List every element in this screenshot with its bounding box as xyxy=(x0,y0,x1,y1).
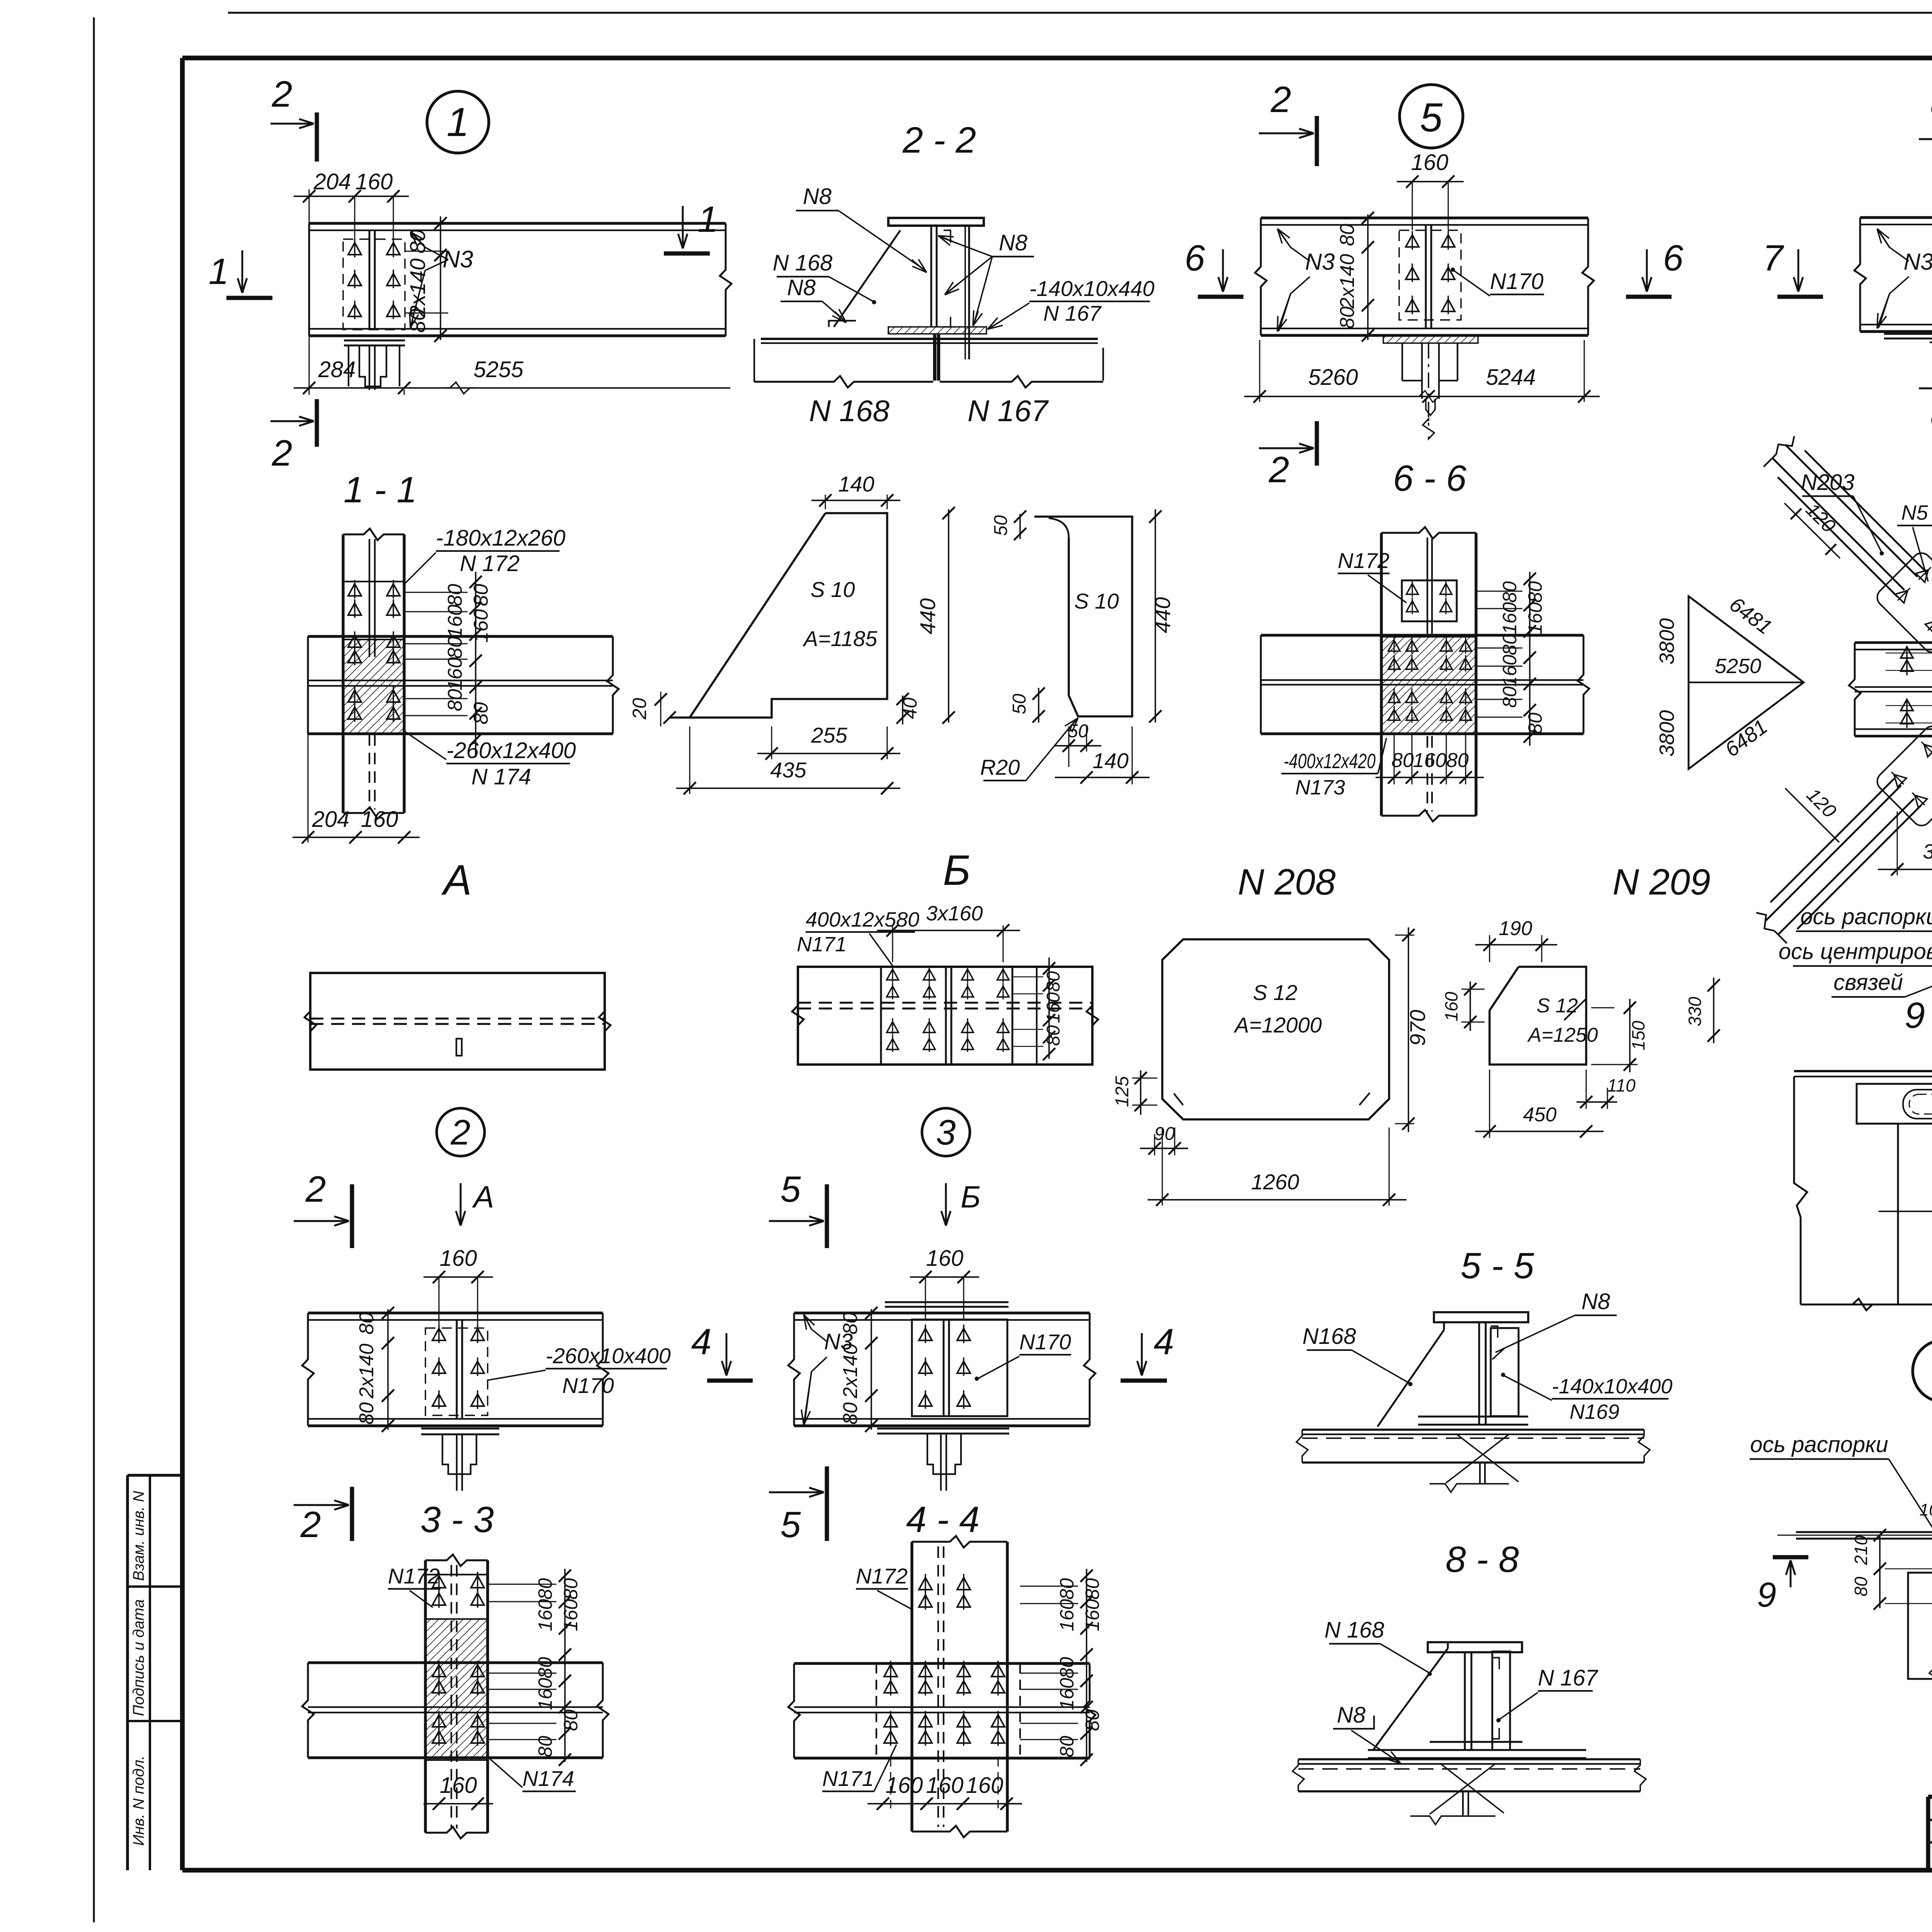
svg-text:R20: R20 xyxy=(980,755,1020,779)
svg-text:120: 120 xyxy=(1802,499,1840,537)
svg-text:N 167: N 167 xyxy=(968,394,1049,428)
svg-text:2: 2 xyxy=(1270,79,1291,120)
svg-text:160: 160 xyxy=(1413,749,1447,772)
svg-text:160: 160 xyxy=(534,1599,556,1631)
svg-text:160: 160 xyxy=(1441,992,1461,1021)
svg-text:6: 6 xyxy=(1185,238,1205,279)
svg-text:N3: N3 xyxy=(1305,249,1335,275)
svg-text:N170: N170 xyxy=(1490,269,1544,294)
svg-text:140: 140 xyxy=(838,472,874,496)
svg-text:N8: N8 xyxy=(1337,1702,1366,1728)
svg-text:N171: N171 xyxy=(822,1766,874,1791)
svg-text:210: 210 xyxy=(1851,1535,1871,1565)
svg-text:5: 5 xyxy=(781,1169,801,1210)
svg-text:N172: N172 xyxy=(1338,548,1389,573)
svg-text:4: 4 xyxy=(1154,1321,1174,1362)
svg-text:80: 80 xyxy=(444,636,466,659)
svg-text:80: 80 xyxy=(355,1312,378,1335)
svg-text:-140x10x440: -140x10x440 xyxy=(1029,276,1155,301)
svg-text:440: 440 xyxy=(1150,597,1175,633)
svg-text:80: 80 xyxy=(534,1736,556,1757)
svg-text:2 - 2: 2 - 2 xyxy=(902,120,976,161)
svg-text:80: 80 xyxy=(560,1578,582,1600)
svg-text:80: 80 xyxy=(1056,1657,1078,1679)
svg-text:160: 160 xyxy=(1043,992,1064,1023)
svg-text:160: 160 xyxy=(1524,602,1546,634)
svg-text:N172: N172 xyxy=(856,1564,908,1588)
svg-text:80: 80 xyxy=(534,1578,556,1600)
svg-text:N170: N170 xyxy=(562,1373,614,1398)
svg-text:N169: N169 xyxy=(1570,1400,1619,1423)
svg-text:2x140: 2x140 xyxy=(355,1344,378,1399)
svg-text:S 12: S 12 xyxy=(1253,980,1297,1005)
svg-text:80: 80 xyxy=(1851,1577,1871,1597)
svg-text:80: 80 xyxy=(1391,749,1414,772)
svg-text:80: 80 xyxy=(839,1402,862,1425)
svg-text:1: 1 xyxy=(209,251,229,292)
svg-text:160: 160 xyxy=(355,169,393,194)
svg-text:А: А xyxy=(441,856,471,904)
svg-text:9: 9 xyxy=(1757,1576,1776,1614)
svg-text:3800: 3800 xyxy=(1655,710,1679,757)
svg-text:160: 160 xyxy=(1499,655,1520,687)
svg-text:N170: N170 xyxy=(1019,1330,1071,1354)
svg-text:1: 1 xyxy=(447,100,469,145)
svg-text:80: 80 xyxy=(1043,971,1064,992)
svg-text:150: 150 xyxy=(1628,1020,1648,1050)
svg-text:4 - 4: 4 - 4 xyxy=(906,1499,980,1540)
svg-text:-260x12x400: -260x12x400 xyxy=(446,738,576,763)
svg-text:Б: Б xyxy=(943,847,971,894)
svg-text:N171: N171 xyxy=(797,933,847,956)
svg-text:255: 255 xyxy=(811,723,847,747)
svg-text:160: 160 xyxy=(470,609,492,643)
svg-text:-400x12x420: -400x12x420 xyxy=(1284,750,1376,773)
svg-text:2: 2 xyxy=(272,74,293,115)
svg-text:S 10: S 10 xyxy=(1074,589,1119,613)
svg-text:50: 50 xyxy=(991,515,1011,536)
svg-text:80: 80 xyxy=(470,702,492,724)
svg-text:1260: 1260 xyxy=(1251,1170,1299,1194)
svg-text:140: 140 xyxy=(1092,748,1128,773)
svg-text:80: 80 xyxy=(405,230,430,253)
svg-text:160: 160 xyxy=(926,1246,964,1271)
svg-text:80: 80 xyxy=(1056,1578,1078,1600)
svg-text:120: 120 xyxy=(1803,784,1841,822)
svg-text:1: 1 xyxy=(698,199,718,240)
svg-text:160: 160 xyxy=(1082,1599,1103,1631)
svg-text:5244: 5244 xyxy=(1486,365,1536,390)
svg-text:970: 970 xyxy=(1405,1010,1430,1046)
svg-text:80: 80 xyxy=(1499,634,1520,655)
svg-text:80: 80 xyxy=(355,1402,378,1425)
svg-text:80: 80 xyxy=(1056,1736,1078,1757)
svg-text:ось распорки: ось распорки xyxy=(1800,904,1932,929)
svg-text:125: 125 xyxy=(1112,1076,1133,1107)
svg-text:8: 8 xyxy=(1930,394,1932,435)
svg-text:160: 160 xyxy=(1056,1678,1078,1710)
svg-text:5: 5 xyxy=(1420,95,1443,140)
svg-text:ось распорки: ось распорки xyxy=(1750,1432,1888,1457)
svg-text:N 168: N 168 xyxy=(809,394,889,428)
svg-text:N174: N174 xyxy=(522,1766,574,1791)
svg-text:80: 80 xyxy=(1336,224,1359,246)
svg-text:160: 160 xyxy=(1411,150,1449,175)
svg-text:4: 4 xyxy=(691,1321,712,1362)
svg-text:80: 80 xyxy=(560,1709,582,1731)
svg-text:160: 160 xyxy=(534,1678,556,1710)
svg-text:3 - 3: 3 - 3 xyxy=(420,1499,494,1540)
svg-text:20: 20 xyxy=(629,698,650,720)
svg-text:160: 160 xyxy=(1499,602,1520,634)
svg-text:80: 80 xyxy=(1446,749,1469,772)
svg-text:Подпись и дата: Подпись и дата xyxy=(130,1599,147,1716)
svg-text:435: 435 xyxy=(770,758,806,782)
svg-text:-260x10x400: -260x10x400 xyxy=(546,1344,671,1368)
svg-text:80: 80 xyxy=(1082,1709,1103,1731)
svg-text:2: 2 xyxy=(272,433,293,474)
svg-text:7: 7 xyxy=(1763,238,1784,279)
svg-text:N 167: N 167 xyxy=(1043,301,1102,325)
svg-text:N8: N8 xyxy=(803,184,832,209)
svg-text:-180x12x260: -180x12x260 xyxy=(436,526,565,551)
svg-text:5250: 5250 xyxy=(1715,655,1761,678)
svg-text:3: 3 xyxy=(936,1113,956,1152)
svg-text:80: 80 xyxy=(444,584,466,606)
svg-text:40: 40 xyxy=(899,697,921,719)
svg-text:6 - 6: 6 - 6 xyxy=(1393,458,1466,499)
svg-text:5255: 5255 xyxy=(473,357,524,382)
svg-text:110: 110 xyxy=(1607,1075,1636,1095)
svg-text:80: 80 xyxy=(470,584,492,606)
svg-text:3x160: 3x160 xyxy=(926,902,983,925)
svg-text:160: 160 xyxy=(444,605,466,638)
svg-text:A=1185: A=1185 xyxy=(803,626,878,651)
svg-text:160: 160 xyxy=(560,1599,582,1631)
svg-text:N172: N172 xyxy=(388,1564,440,1588)
svg-text:5260: 5260 xyxy=(1308,365,1358,390)
svg-text:3x160: 3x160 xyxy=(1923,840,1932,863)
svg-text:N8: N8 xyxy=(1582,1289,1610,1314)
svg-text:N3: N3 xyxy=(1904,249,1932,275)
svg-text:N8: N8 xyxy=(999,230,1027,255)
svg-text:160: 160 xyxy=(926,1773,964,1798)
svg-text:Инв. N подл.: Инв. N подл. xyxy=(130,1755,147,1846)
svg-text:3800: 3800 xyxy=(1655,618,1679,665)
svg-text:N 167: N 167 xyxy=(1538,1665,1599,1690)
svg-text:80: 80 xyxy=(1499,686,1520,708)
svg-text:2: 2 xyxy=(1269,449,1289,490)
svg-text:2: 2 xyxy=(300,1504,321,1545)
svg-text:160: 160 xyxy=(440,1246,477,1271)
svg-text:50: 50 xyxy=(1009,694,1030,714)
svg-text:80: 80 xyxy=(1499,581,1520,603)
svg-text:80: 80 xyxy=(1336,306,1359,329)
svg-text:S 10: S 10 xyxy=(810,577,855,602)
svg-text:Б: Б xyxy=(961,1180,981,1214)
svg-text:N 208: N 208 xyxy=(1238,862,1336,903)
svg-text:160: 160 xyxy=(361,807,398,832)
svg-text:80: 80 xyxy=(1082,1578,1103,1600)
svg-text:-140x10x400: -140x10x400 xyxy=(1552,1375,1672,1398)
svg-text:6481: 6481 xyxy=(1721,715,1772,762)
svg-text:N 168: N 168 xyxy=(1325,1617,1384,1643)
svg-text:8: 8 xyxy=(1930,83,1932,124)
svg-text:S 12: S 12 xyxy=(1537,995,1578,1017)
svg-text:N168: N168 xyxy=(1303,1324,1356,1349)
svg-text:N203: N203 xyxy=(1801,470,1855,495)
svg-text:90: 90 xyxy=(1154,1124,1175,1144)
svg-text:2: 2 xyxy=(305,1169,326,1210)
svg-text:8 - 8: 8 - 8 xyxy=(1446,1539,1519,1580)
svg-text:1 - 1: 1 - 1 xyxy=(344,469,417,510)
svg-text:N8: N8 xyxy=(787,275,816,300)
svg-text:50: 50 xyxy=(1068,721,1088,742)
svg-text:5 - 5: 5 - 5 xyxy=(1461,1245,1534,1286)
svg-text:А: А xyxy=(472,1180,494,1214)
svg-text:связей: связей xyxy=(1833,970,1903,995)
svg-text:ось центрирования: ось центрирования xyxy=(1779,939,1932,964)
svg-text:80: 80 xyxy=(444,689,466,711)
svg-text:204: 204 xyxy=(312,807,350,832)
svg-text:80: 80 xyxy=(1043,1025,1064,1046)
svg-text:204: 204 xyxy=(313,169,351,194)
svg-text:10: 10 xyxy=(1920,1500,1932,1519)
svg-text:A=1250: A=1250 xyxy=(1527,1024,1598,1046)
svg-text:80: 80 xyxy=(1524,713,1546,734)
svg-text:2x140: 2x140 xyxy=(1336,254,1359,309)
svg-text:80: 80 xyxy=(1524,581,1546,603)
svg-text:2: 2 xyxy=(450,1113,470,1152)
svg-text:N 168: N 168 xyxy=(773,250,833,276)
svg-text:N173: N173 xyxy=(1295,776,1345,799)
svg-text:400x12x580: 400x12x580 xyxy=(806,908,919,931)
svg-text:N 172: N 172 xyxy=(460,551,520,576)
svg-text:6481: 6481 xyxy=(1725,593,1776,639)
svg-text:440: 440 xyxy=(915,598,940,634)
svg-text:284: 284 xyxy=(318,357,356,382)
svg-text:6: 6 xyxy=(1663,238,1684,279)
svg-text:Взам. инв. N: Взам. инв. N xyxy=(130,1491,147,1581)
svg-text:160: 160 xyxy=(440,1773,477,1798)
svg-text:450: 450 xyxy=(1523,1104,1557,1126)
svg-text:330: 330 xyxy=(1685,997,1705,1026)
svg-text:N5: N5 xyxy=(1901,501,1928,524)
svg-text:N3: N3 xyxy=(824,1329,853,1354)
svg-text:N 174: N 174 xyxy=(471,764,531,789)
svg-text:5: 5 xyxy=(781,1504,801,1545)
svg-text:9 - 9: 9 - 9 xyxy=(1905,995,1932,1036)
svg-text:N 209: N 209 xyxy=(1612,862,1711,903)
svg-text:160: 160 xyxy=(444,657,466,691)
svg-text:80: 80 xyxy=(534,1657,556,1679)
svg-text:190: 190 xyxy=(1499,917,1532,940)
svg-text:A=12000: A=12000 xyxy=(1233,1013,1322,1037)
svg-text:160: 160 xyxy=(1056,1599,1078,1631)
